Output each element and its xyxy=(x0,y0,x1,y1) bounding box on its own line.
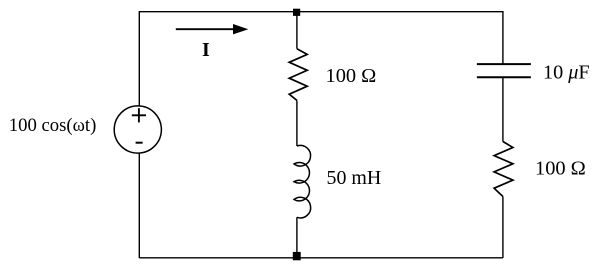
svg-text:100 Ω: 100 Ω xyxy=(535,157,586,179)
resistor R1 100ohm middle xyxy=(289,49,307,101)
wire left upper xyxy=(138,11,140,106)
svg-text:100 cos(ωt): 100 cos(ωt) xyxy=(9,115,97,136)
wire cap to resistor xyxy=(502,77,504,141)
plus terminal xyxy=(132,108,146,122)
wire bottom xyxy=(139,257,503,259)
wire middle upper xyxy=(296,14,298,49)
node bottom junction xyxy=(293,252,301,260)
svg-text:10 μF: 10 μF xyxy=(543,61,590,83)
svg-text:100 Ω: 100 Ω xyxy=(326,65,377,87)
resistor R2 100ohm right xyxy=(494,142,513,197)
capacitor C1 plate bottom xyxy=(477,76,531,78)
inductor L1 50mH xyxy=(294,145,311,217)
wire resistor to inductor xyxy=(296,100,298,146)
minus terminal xyxy=(136,142,143,144)
wire inductor to bottom node xyxy=(296,217,298,254)
wire top xyxy=(139,11,503,13)
wire right lower xyxy=(502,197,504,259)
capacitor C1 plate top xyxy=(477,63,531,65)
current arrow I xyxy=(176,28,236,30)
svg-text:I: I xyxy=(202,39,210,61)
node top junction xyxy=(293,9,300,16)
wire left lower xyxy=(138,153,140,258)
svg-text:50 mH: 50 mH xyxy=(327,167,382,189)
voltage source V1 xyxy=(114,106,161,153)
wire right upper xyxy=(502,11,504,64)
